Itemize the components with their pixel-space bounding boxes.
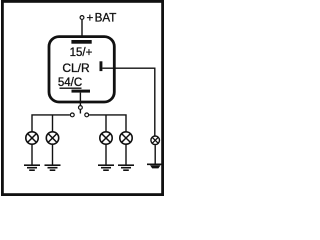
wire R2 to ground <box>125 145 127 165</box>
ground G4 <box>118 165 134 170</box>
ground G1 <box>24 165 40 170</box>
lamp R1 <box>100 132 112 144</box>
wire 54/C to switch pole <box>79 93 81 106</box>
svg-text:+BAT: +BAT <box>87 12 117 25</box>
switch pole contact <box>79 106 83 110</box>
wire L1 to ground <box>31 145 33 165</box>
indicator lamp <box>151 136 160 145</box>
wire lamp3 drop <box>105 115 107 132</box>
underline 54/C <box>60 87 82 89</box>
wire R1 to ground <box>105 145 107 165</box>
wire lamp2 drop <box>52 115 54 132</box>
wire indicator lamp to ground <box>154 145 156 164</box>
svg-text:54/C: 54/C <box>58 77 82 89</box>
wire +BAT to relay <box>81 20 83 37</box>
node +BAT terminal <box>80 16 84 20</box>
flasher relay box <box>49 37 114 102</box>
svg-text:CL/R: CL/R <box>62 61 90 75</box>
switch right contact <box>85 113 89 117</box>
terminal 54/C bar <box>72 90 91 93</box>
ground G2 <box>45 165 61 170</box>
wire left branch <box>32 115 70 132</box>
switch pole stub <box>79 110 81 114</box>
switch left contact <box>70 113 74 117</box>
wire CL/R to indicator lamp <box>102 68 154 135</box>
lamp R2 <box>120 132 132 144</box>
lamp L1 <box>26 132 38 144</box>
ground G3 <box>98 165 114 170</box>
svg-text:15/+: 15/+ <box>70 47 93 59</box>
wire L2 to ground <box>52 145 54 165</box>
wire right branch <box>89 115 126 132</box>
terminal 15/+ bar <box>71 40 91 44</box>
lamp L2 <box>46 132 58 144</box>
chassis ground <box>147 164 163 168</box>
terminal CL/R bar <box>100 61 103 71</box>
